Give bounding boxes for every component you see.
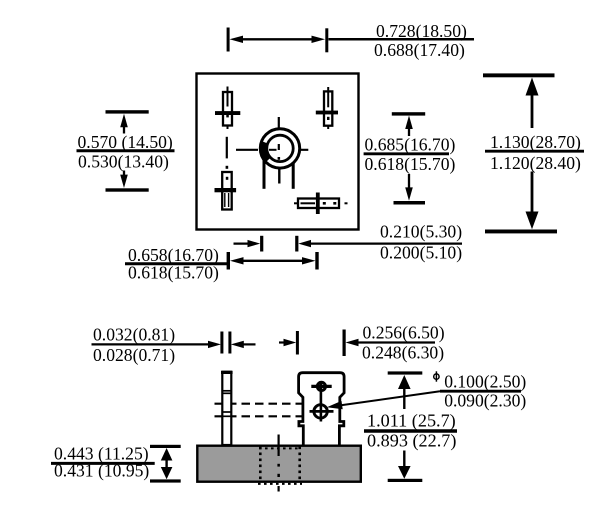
hole centerline vertical <box>278 117 280 139</box>
svg-text:1.120(28.40): 1.120(28.40) <box>490 153 581 173</box>
pin 2 terminal top-right <box>316 87 338 129</box>
dimension 0.728/0.688 top <box>227 21 474 60</box>
pin 4 terminal bottom-right horizontal <box>294 193 348 215</box>
tangent lines below hole <box>263 151 266 189</box>
dimension 0.443/0.431 <box>51 444 181 483</box>
dimension 0.658/0.618 bottom <box>125 245 319 283</box>
phi symbol <box>434 371 439 381</box>
hidden hole dotted <box>258 447 302 484</box>
dimension 1.011/0.893 <box>364 371 457 482</box>
terminal tab side view <box>299 373 345 446</box>
hidden lines dashed <box>215 403 303 405</box>
dimension 0.210/0.200 <box>234 221 463 262</box>
hole rim fill wedge <box>263 142 268 160</box>
hole centerline horizontal <box>236 149 258 151</box>
mounting hole outer circle <box>260 129 299 168</box>
svg-text:0.028(0.71): 0.028(0.71) <box>93 345 175 365</box>
svg-text:0.431 (10.95): 0.431 (10.95) <box>54 461 149 481</box>
dimension 1.130/1.120 right overall <box>483 73 584 233</box>
svg-text:0.100(2.50): 0.100(2.50) <box>444 372 526 392</box>
package body outline (top view) <box>197 74 359 230</box>
svg-text:0.728(18.50): 0.728(18.50) <box>376 21 467 41</box>
svg-text:0.248(6.30): 0.248(6.30) <box>362 343 444 363</box>
svg-text:0.210(5.30): 0.210(5.30) <box>380 221 462 241</box>
svg-text:0.685(16.70): 0.685(16.70) <box>365 135 456 155</box>
centerline bottom view <box>277 435 280 492</box>
hole center marks <box>269 149 277 151</box>
svg-text:0.090(2.30): 0.090(2.30) <box>444 391 526 411</box>
dimension 0.570/0.530 left <box>77 110 175 192</box>
body side view <box>197 446 360 482</box>
dimension 0.256/0.248 <box>279 323 445 363</box>
terminal hole <box>314 405 327 418</box>
svg-text:1.011 (25.7): 1.011 (25.7) <box>367 410 456 431</box>
lead pin side view <box>221 372 233 445</box>
svg-text:0.530(13.40): 0.530(13.40) <box>78 151 169 171</box>
rivet <box>317 382 325 390</box>
svg-text:0.618(15.70): 0.618(15.70) <box>128 263 219 283</box>
svg-text:0.893 (22.7): 0.893 (22.7) <box>367 430 456 451</box>
svg-text:1.130(28.70): 1.130(28.70) <box>490 132 581 152</box>
pin 3 terminal bottom-left <box>215 172 237 210</box>
svg-text:0.688(17.40): 0.688(17.40) <box>374 40 465 60</box>
svg-text:0.032(0.81): 0.032(0.81) <box>93 325 175 345</box>
svg-text:0.200(5.10): 0.200(5.10) <box>380 243 462 263</box>
centerline between left pins <box>226 137 228 159</box>
dimension 0.685/0.618 right inner <box>364 112 456 204</box>
pin 1 terminal top-left <box>215 87 240 130</box>
mounting hole inner circle <box>267 135 293 161</box>
svg-text:0.570 (14.50): 0.570 (14.50) <box>78 132 173 152</box>
dimension 0.100/0.090 hole <box>440 372 526 411</box>
leader line hole diameter <box>341 391 440 405</box>
svg-text:0.256(6.50): 0.256(6.50) <box>363 323 445 343</box>
dimension 0.032/0.028 <box>92 325 256 365</box>
svg-text:0.618(15.70): 0.618(15.70) <box>365 154 456 174</box>
